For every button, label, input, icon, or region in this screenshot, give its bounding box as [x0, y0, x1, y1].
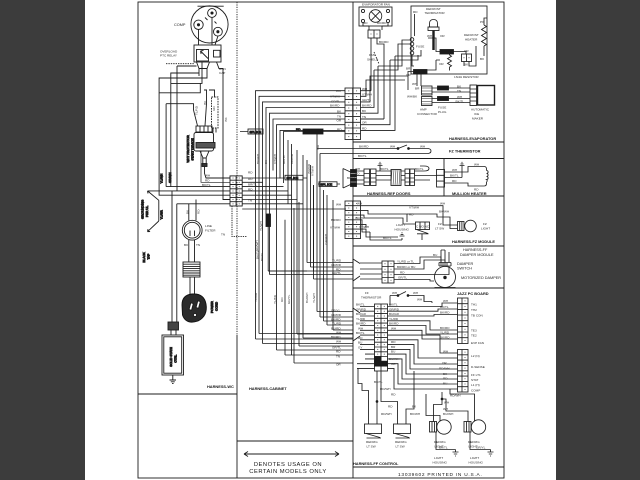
wire rows A to splice boxes: [242, 178, 346, 209]
svg-text:CTRL: CTRL: [173, 354, 177, 362]
PTC relay arrow: [201, 50, 209, 58]
svg-text:BK/RD: BK/RD: [330, 104, 340, 108]
svg-text:SPL ICE: SPL ICE: [321, 183, 333, 187]
svg-text:BR/RD or BU: BR/RD or BU: [397, 265, 415, 269]
main board connector E: [375, 304, 388, 371]
fuse black box 1: [438, 86, 449, 90]
svg-text:HARNESS-FF CONTROL: HARNESS-FF CONTROL: [353, 461, 399, 466]
junction dots: [397, 148, 399, 150]
svg-text:HARNESS-FF: HARNESS-FF: [463, 248, 488, 252]
compressor cover chord: [198, 5, 224, 7]
refrig light 1 base: [430, 422, 437, 433]
PTC relay inner contact box: [197, 50, 209, 62]
wires E right stair to J1: [388, 335, 458, 389]
svg-text:HARNESS-REF DOORS: HARNESS-REF DOORS: [367, 191, 411, 196]
svg-text:BK/TL: BK/TL: [255, 250, 259, 259]
refrig light 2 glass: [471, 420, 485, 434]
svg-text:TE3: TE3: [471, 329, 477, 333]
svg-text:VT/WH: VT/WH: [310, 166, 314, 176]
svg-text:GR/YL: GR/YL: [287, 294, 291, 304]
refrig light 2 base: [464, 422, 471, 433]
power cord plug head: [182, 294, 206, 322]
wire line filter bottom leads: [189, 240, 195, 262]
svg-text:GR/YL: GR/YL: [331, 309, 341, 313]
svg-text:LINE: LINE: [205, 224, 212, 228]
svg-text:BK/TL: BK/TL: [347, 176, 356, 180]
junction dots lights: [441, 398, 443, 400]
wire bk/tl ground run: [436, 432, 456, 450]
svg-text:OR: OR: [406, 73, 411, 77]
svg-text:PER UL: PER UL: [145, 206, 149, 217]
svg-text:HOUSING: HOUSING: [433, 461, 448, 465]
wire vt/wh run: [361, 210, 408, 222]
evaporator fan box: [359, 7, 392, 26]
svg-text:FZ: FZ: [438, 222, 442, 226]
svg-text:FF: FF: [365, 291, 369, 295]
svg-text:WH: WH: [358, 326, 363, 330]
svg-text:BK/TL: BK/TL: [389, 303, 398, 307]
svg-text:HARNESS-EVAPORATOR: HARNESS-EVAPORATOR: [449, 136, 496, 141]
svg-text:AMP: AMP: [420, 108, 427, 112]
defrost section box: [411, 6, 487, 74]
svg-text:FZ: FZ: [483, 222, 487, 226]
svg-text:YL/RD: YL/RD: [389, 317, 399, 321]
svg-text:SHIELD: SHIELD: [367, 58, 379, 62]
svg-text:GR/TL: GR/TL: [362, 98, 371, 102]
svg-text:RD/WH: RD/WH: [381, 412, 391, 416]
solid state control box: [162, 335, 184, 375]
svg-text:GR/RD: GR/RD: [331, 263, 342, 267]
dashed stub left of PTC: [166, 63, 194, 65]
svg-text:GR/TL: GR/TL: [398, 276, 407, 280]
connector B cabinet-evaporator: [345, 88, 361, 140]
svg-text:BK/TL: BK/TL: [415, 167, 424, 171]
divider below harness-evaporator: [353, 141, 504, 143]
wire nested rect 3: [159, 83, 200, 92]
door 3-pin connector: [437, 170, 445, 188]
wire rows out of connector A: [242, 178, 303, 204]
svg-text:POWER: POWER: [210, 301, 214, 313]
svg-text:RD: RD: [413, 10, 418, 14]
svg-text:LT SW: LT SW: [367, 445, 376, 449]
svg-text:CORD: CORD: [215, 301, 219, 311]
svg-text:13039602 PRINTED IN U.S.A.: 13039602 PRINTED IN U.S.A.: [398, 472, 483, 478]
svg-text:CAP: CAP: [219, 71, 225, 75]
label TL/RD taper: [194, 105, 198, 115]
wire bk/tl left drop to sw1: [358, 368, 369, 424]
start device band: [196, 143, 215, 149]
svg-text:HARNESS-CABINET: HARNESS-CABINET: [249, 386, 287, 391]
splice box rd outlined: [248, 129, 263, 134]
svg-text:BK/RD: BK/RD: [389, 322, 399, 326]
svg-text:BK/RD: BK/RD: [331, 335, 341, 339]
wire anchor to solid state: [171, 330, 176, 335]
svg-text:TE2: TE2: [471, 334, 477, 338]
connector pin numbers texture: [233, 34, 470, 390]
wire rd/wh to light2 right: [450, 389, 475, 422]
terminator stem thick: [432, 31, 434, 51]
svg-text:RD: RD: [248, 188, 253, 192]
svg-text:VT/WH: VT/WH: [359, 225, 369, 229]
svg-text:STAT: STAT: [471, 378, 479, 382]
svg-text:BK/RD: BK/RD: [362, 104, 372, 108]
svg-text:RD: RD: [391, 393, 396, 397]
svg-text:REFRIG: REFRIG: [434, 440, 446, 444]
svg-text:RD: RD: [248, 177, 253, 181]
scan page: [85, 0, 556, 480]
ice maker pin strip: [470, 85, 477, 106]
svg-text:BK/RD: BK/RD: [440, 311, 450, 315]
mullion heater loop: [471, 167, 488, 187]
wire gr/tl row: [259, 263, 353, 334]
svg-text:LT SW: LT SW: [396, 445, 405, 449]
splice box 2 outlined: [319, 182, 337, 187]
connector J 1-2: [462, 54, 472, 62]
label black tap: [142, 251, 151, 262]
svg-text:RD: RD: [358, 336, 363, 340]
svg-text:SOLID STATE: SOLID STATE: [169, 347, 173, 367]
wire funnel 1 rows: [268, 185, 353, 279]
divider bottom of harness-wc: [138, 393, 237, 395]
svg-text:OR: OR: [362, 121, 367, 125]
svg-text:WH: WH: [336, 203, 341, 207]
svg-text:RD/WH: RD/WH: [450, 394, 460, 398]
divider below fz thermistor: [353, 158, 504, 160]
svg-text:THERMISTOR: THERMISTOR: [361, 296, 382, 300]
fan shield dashed leader: [374, 52, 379, 64]
svg-text:TB CON: TB CON: [471, 314, 483, 318]
terminal tick marks: [205, 18, 217, 24]
svg-text:RD: RD: [409, 213, 414, 217]
svg-text:OR/RD: OR/RD: [290, 153, 294, 164]
divider above part number strip: [353, 466, 504, 468]
defrost heater resistor right: [482, 18, 488, 56]
svg-text:RD: RD: [400, 271, 405, 275]
svg-text:BK/RD: BK/RD: [440, 336, 450, 340]
svg-text:RD: RD: [452, 179, 457, 183]
ground below solid state: [170, 375, 177, 383]
svg-text:SWITCH: SWITCH: [457, 267, 472, 271]
outer schematic frame: [138, 2, 504, 478]
rotated wire labels left bundle: [160, 174, 164, 184]
svg-text:YL/WH: YL/WH: [259, 221, 263, 231]
door grommet hatched: [391, 170, 401, 186]
svg-text:RD/WH: RD/WH: [439, 367, 449, 371]
svg-text:WH: WH: [420, 145, 425, 149]
grounding label vertical: [141, 199, 150, 219]
svg-text:TN: TN: [336, 355, 340, 359]
start device tip: [202, 164, 207, 167]
svg-text:BK/TL: BK/TL: [202, 183, 211, 187]
svg-text:BU/GR: BU/GR: [389, 312, 400, 316]
funnel 2 shape: [353, 308, 360, 341]
svg-text:VT/WH: VT/WH: [273, 154, 277, 164]
svg-text:BU: BU: [358, 341, 362, 345]
svg-text:GR/WH: GR/WH: [168, 172, 172, 183]
svg-text:RD: RD: [443, 377, 448, 381]
junction dots ff therm: [397, 295, 399, 297]
svg-text:TH1: TH1: [471, 303, 477, 307]
svg-text:GROUNDING: GROUNDING: [141, 199, 145, 219]
svg-text:WH: WH: [474, 163, 479, 167]
ice maker body: [478, 86, 495, 106]
svg-text:EVP FAN: EVP FAN: [471, 341, 484, 345]
denotes usage note: [244, 452, 339, 476]
svg-text:WH: WH: [443, 407, 448, 411]
svg-text:VT/WH: VT/WH: [330, 226, 340, 230]
svg-text:WH: WH: [362, 87, 367, 91]
svg-text:WH: WH: [443, 350, 448, 354]
wire vt/wh lower: [361, 229, 399, 237]
wire terminal C down: [211, 18, 213, 46]
wire rd run: [361, 215, 423, 240]
amp connector hatched halves: [422, 86, 433, 106]
label bk lf lead: [185, 209, 189, 214]
wire fan to plug connector: [363, 23, 388, 30]
ground arrow lower: [148, 221, 159, 232]
ref door funnel: [343, 169, 351, 189]
line filter elements: [190, 231, 195, 237]
overload PTC relay outer: [194, 45, 221, 62]
svg-text:TAP: TAP: [147, 254, 151, 260]
svg-text:L2 (N): L2 (N): [471, 354, 480, 358]
svg-text:YL/RD: YL/RD: [332, 322, 342, 326]
svg-text:BK/TL: BK/TL: [440, 305, 449, 309]
divider cabinet / right column: [352, 2, 354, 478]
svg-text:HARNESS-WC: HARNESS-WC: [207, 384, 234, 389]
label RD cap: [212, 106, 216, 111]
svg-text:BLACK: BLACK: [142, 251, 146, 262]
wire splice to conn J: [454, 52, 467, 55]
svg-text:BK/RD: BK/RD: [440, 326, 450, 330]
svg-text:WH: WH: [412, 82, 417, 86]
svg-text:RD: RD: [212, 106, 216, 111]
svg-text:BK/RD: BK/RD: [359, 145, 369, 149]
cord anchor block: [168, 322, 179, 330]
wire row 186.6: [166, 186, 230, 188]
label BK right vertical: [224, 116, 228, 121]
svg-text:GR/TL: GR/TL: [282, 155, 286, 164]
wire rd splice row to B: [240, 132, 345, 184]
wire box left edge drop: [414, 14, 416, 36]
svg-text:WH: WH: [336, 331, 341, 335]
PTC small block: [214, 50, 221, 57]
wire loop door: [415, 166, 438, 180]
fuse black box 2: [438, 97, 449, 101]
wire bottom fan rows: [256, 338, 354, 340]
divider harness-wc / cabinet dashed top: [236, 2, 238, 335]
svg-text:WHT PROTECTOR: WHT PROTECTOR: [186, 135, 190, 163]
svg-text:MULLION HEATER: MULLION HEATER: [452, 191, 487, 196]
ground light socket 2: [488, 450, 494, 457]
svg-text:LIGHT: LIGHT: [434, 456, 443, 460]
wire start tip to connector row: [205, 167, 231, 179]
connector pin numbers texture: [0, 479, 1, 480]
refrig lt sw 1: [365, 424, 382, 438]
divider below fz module: [353, 245, 504, 247]
svg-text:GY: GY: [358, 345, 362, 349]
svg-text:C NO NC: C NO NC: [416, 225, 430, 229]
svg-text:1N4Ω RESISTOR: 1N4Ω RESISTOR: [454, 75, 479, 79]
wire terminal R to PTC: [215, 36, 218, 45]
svg-text:BK/WH: BK/WH: [256, 154, 260, 164]
svg-text:WH/BK: WH/BK: [407, 95, 418, 99]
refrig light 1 glass: [437, 420, 451, 434]
heater resistor vertical small: [448, 52, 452, 71]
fan plug connector 1-2: [368, 30, 380, 38]
strain relief hatched: [183, 262, 200, 277]
splice RPL/BK lower: [414, 70, 428, 75]
divider ref doors / mullion heater: [443, 159, 445, 197]
divider below damper module: [353, 287, 504, 289]
wire gr/yl ground run: [470, 432, 491, 450]
svg-text:YL/GR: YL/GR: [160, 209, 164, 219]
svg-text:SPL ICE: SPL ICE: [287, 176, 299, 180]
line filter shell: [182, 220, 202, 240]
svg-text:REFRIG: REFRIG: [468, 440, 480, 444]
label solid state: [169, 347, 178, 367]
door connector pair 2: [405, 169, 415, 186]
svg-text:YL/RD: YL/RD: [332, 259, 342, 263]
damper base line: [435, 287, 456, 289]
svg-text:GR/RD: GR/RD: [356, 307, 367, 311]
wires pair1 to grommet: [376, 169, 391, 180]
svg-text:YL/RD or TL: YL/RD or TL: [397, 260, 414, 264]
wire line filter top leads: [189, 200, 196, 221]
wire ptc right vertical: [223, 69, 230, 200]
svg-text:WH: WH: [440, 202, 445, 206]
svg-text:TH2: TH2: [471, 308, 477, 312]
ground fz module: [400, 233, 405, 240]
svg-text:RD: RD: [248, 171, 253, 175]
wire rows to damper: [394, 257, 449, 281]
svg-text:WH: WH: [417, 298, 422, 302]
svg-text:GR/RD: GR/RD: [389, 307, 400, 311]
svg-text:HOUSING: HOUSING: [469, 461, 484, 465]
svg-text:BK/TL: BK/TL: [356, 331, 365, 335]
wires 3pin to mullion: [445, 167, 472, 187]
svg-text:BU/GR: BU/GR: [356, 312, 367, 316]
svg-text:TN: TN: [221, 233, 225, 237]
PTC bottom funnel: [197, 62, 210, 73]
svg-text:YL/RD: YL/RD: [254, 292, 258, 302]
wire wh to fz light: [361, 206, 458, 225]
svg-text:BK/TL: BK/TL: [456, 100, 465, 104]
svg-text:RD: RD: [205, 178, 210, 182]
defrost terminator bell: [430, 20, 438, 28]
svg-text:TN: TN: [457, 89, 461, 93]
wire bu/wh to light1 right: [426, 394, 440, 422]
fan blade symbol: [369, 10, 382, 23]
connector C cabinet-fz module: [345, 201, 361, 239]
svg-text:JAZZ PC BOARD: JAZZ PC BOARD: [457, 291, 489, 296]
svg-text:LIGHT: LIGHT: [481, 227, 490, 231]
svg-text:WH: WH: [413, 291, 418, 295]
ground light socket 1: [453, 450, 459, 457]
svg-text:OR: OR: [316, 144, 320, 149]
svg-text:L1 (H): L1 (H): [471, 383, 480, 387]
wire rd to sw2 left: [381, 371, 398, 424]
svg-text:WH: WH: [457, 95, 462, 99]
interconnect grid WC-cabinet: [230, 176, 247, 237]
svg-text:ICE: ICE: [474, 112, 479, 116]
svg-text:AUTOMATIC: AUTOMATIC: [471, 108, 490, 112]
svg-text:RD: RD: [296, 128, 301, 132]
motorized damper body: [435, 267, 456, 288]
svg-text:BK/TL: BK/TL: [380, 167, 389, 171]
svg-text:RD: RD: [280, 297, 284, 302]
svg-text:BR: BR: [391, 345, 396, 349]
damper connector 4-pin: [382, 261, 394, 283]
start device taper: [200, 151, 209, 164]
thermistor probe switch: [358, 145, 431, 154]
svg-text:WH: WH: [355, 167, 360, 171]
svg-text:DEFROST: DEFROST: [464, 33, 479, 37]
wires top into damper: [441, 250, 449, 263]
label BK taper: [203, 100, 207, 105]
damper pins header: [439, 263, 451, 267]
wire bk to sw2 right: [406, 371, 414, 424]
svg-text:OR: OR: [440, 34, 445, 38]
wire strain relief to plug: [190, 277, 195, 298]
wire bundle secondary verticals: [288, 132, 333, 356]
svg-text:BK/TL: BK/TL: [439, 446, 448, 450]
wire rd/wh riser sw1 right: [376, 371, 378, 424]
wires funnel to damper connector: [360, 263, 382, 279]
svg-text:BK/TL: BK/TL: [356, 303, 365, 307]
svg-text:WH: WH: [390, 145, 395, 149]
wire wh to light1 left: [434, 392, 443, 422]
svg-text:VT/WH: VT/WH: [330, 95, 340, 99]
label power cord: [210, 301, 219, 313]
wires strip to conn pair 1: [357, 171, 365, 184]
compressor terminal C: [208, 9, 217, 18]
start device body: [194, 133, 214, 152]
svg-text:FAN: FAN: [369, 53, 375, 57]
wires amp to fuse to icemaker: [432, 88, 470, 103]
svg-text:BR: BR: [406, 67, 411, 71]
svg-text:OR: OR: [442, 361, 447, 365]
wire terminal S to PTC: [198, 30, 200, 46]
svg-text:LIGHT: LIGHT: [396, 223, 405, 227]
svg-text:BK/TL: BK/TL: [358, 154, 367, 158]
wire fan plug leads down: [361, 38, 384, 119]
ground ref door: [378, 162, 383, 169]
wire nested rect 2 dashed: [159, 62, 230, 195]
wire bk/tl ground run: [370, 232, 402, 240]
svg-text:RD: RD: [336, 350, 341, 354]
run capacitor tall box dashed: [212, 97, 219, 128]
ref door black pin strip: [351, 170, 357, 187]
top of denotes box: [237, 440, 353, 442]
wire wh bus to light2 left: [442, 399, 468, 422]
wire cap leads: [209, 62, 223, 133]
svg-text:OR: OR: [336, 363, 341, 367]
svg-text:SPL ICE: SPL ICE: [250, 130, 262, 134]
svg-text:TERMINATOR: TERMINATOR: [425, 11, 446, 15]
wire row 203.8: [177, 204, 230, 250]
svg-text:WH: WH: [336, 340, 341, 344]
svg-text:BK/RD: BK/RD: [377, 21, 387, 25]
fz light switch box: [416, 222, 430, 234]
svg-text:FILTER: FILTER: [205, 229, 216, 233]
jazz connector J1 strip: [458, 350, 469, 393]
svg-text:FF LT1: FF LT1: [471, 373, 481, 377]
compressor terminal R: [214, 27, 223, 36]
svg-text:WH: WH: [336, 89, 341, 93]
jazz connector J2 strip: [458, 298, 469, 344]
svg-text:RD: RD: [355, 172, 360, 176]
